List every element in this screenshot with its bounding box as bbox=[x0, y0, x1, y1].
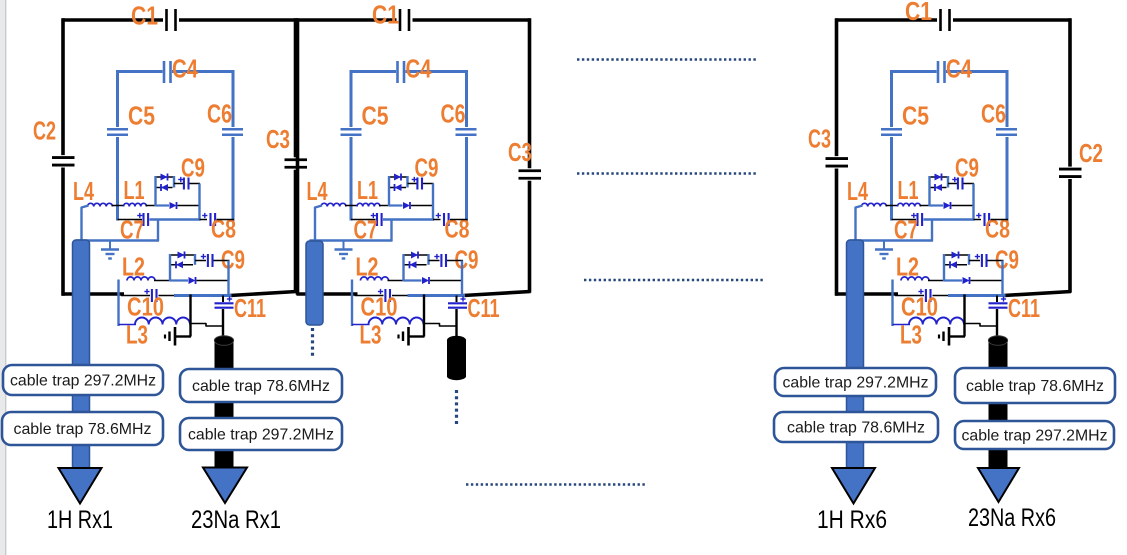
1H coax cable (loop 6) bbox=[847, 240, 864, 470]
wire: loop2 bottom edge (left part) bbox=[297, 292, 358, 296]
capacitor C5 (loop 1) bbox=[107, 128, 128, 131]
plus mark C7 (loop 6) bbox=[911, 215, 916, 217]
diode pair top wire (1H trap, loop 1) bbox=[156, 176, 175, 178]
wire: C8 left lead (loop 2) bbox=[433, 219, 441, 221]
svg-text:cable trap 297.2MHz: cable trap 297.2MHz bbox=[962, 428, 1108, 445]
wire: C7 line left part (loop 6) bbox=[892, 219, 917, 221]
capacitor C5 (loop 6) bbox=[881, 128, 902, 131]
wire: C9 to right vertical (23Na trap, loop 6) bbox=[988, 260, 1004, 262]
wire: 1H trap right end vertical (loop 1) bbox=[173, 176, 175, 188]
wire: 1H trap mid line blue part (loop 6) bbox=[930, 204, 944, 206]
svg-text:C6: C6 bbox=[207, 99, 232, 129]
wire: 1H trap right vertical (loop 2) bbox=[432, 184, 434, 221]
wire: 23Na trap output blue line on loop bottom (loop 6) bbox=[948, 294, 1006, 297]
wire: L4 to L1 segment (loop 2) bbox=[345, 205, 358, 207]
wire: inner loop6 top edge (left part) bbox=[892, 70, 937, 73]
cable trap 78.6MHz box (1H, loop 1) bbox=[2, 412, 163, 445]
wire: to C9 (1H trap, loop 2) bbox=[408, 183, 417, 185]
wire: inner loop2 right branch (lower, down to C8) bbox=[465, 137, 468, 221]
capacitor C8 (loop 2) bbox=[443, 213, 445, 226]
svg-text:L4: L4 bbox=[307, 176, 328, 206]
capacitor C10 (loop 2) bbox=[384, 289, 386, 302]
svg-text:C1: C1 bbox=[905, 0, 932, 26]
wire: 23Na trap mid line black part (loop 6) bbox=[971, 280, 1004, 282]
wire: inner loop6 top edge (right part) bbox=[946, 70, 1007, 73]
wire: to C9 (23Na trap, loop 2) bbox=[429, 260, 440, 262]
wire: C8 left lead (loop 1) bbox=[200, 219, 208, 221]
wire: C7 to C8 blue segment (loop 2) bbox=[383, 218, 434, 220]
diode pair top wire (1H trap, loop 6) bbox=[930, 176, 949, 178]
inductor L2 (loop 6) bbox=[901, 277, 929, 281]
wire: 23Na trap mid line black part (loop 2) bbox=[430, 280, 463, 282]
wire: 1H trap right end vertical (loop 6) bbox=[947, 176, 949, 188]
diode pair bottom wire (23Na trap, loop 6) bbox=[944, 264, 967, 266]
dotted ellipsis line (middle, loops 3-5) bbox=[577, 172, 758, 174]
svg-text:23Na Rx6: 23Na Rx6 bbox=[968, 504, 1056, 532]
dotted ellipsis line (bottom, cables 2-5) bbox=[466, 483, 646, 485]
wire: C10 line right part (loop 1) bbox=[159, 295, 176, 297]
capacitor C4 (loop 6) bbox=[937, 61, 940, 83]
wire: 23Na trap output blue line on loop bottom (loop 2) bbox=[408, 294, 466, 297]
capacitor C3 (loop 6) bbox=[826, 157, 849, 160]
arrow 1H Rx6 bbox=[832, 468, 875, 504]
svg-text:C9: C9 bbox=[415, 153, 439, 183]
arrow 1H Rx1 bbox=[59, 468, 102, 504]
capacitor C1 (loop 1) bbox=[165, 9, 168, 31]
svg-text:C8: C8 bbox=[985, 214, 1010, 244]
capacitor C10 (loop 6) bbox=[925, 289, 927, 302]
wire: loop6 left edge (lower) bbox=[835, 169, 839, 296]
wire: loop1 left edge (lower) bbox=[61, 168, 65, 296]
capacitor C4 (loop 2) bbox=[396, 61, 399, 83]
capacitor C2 (loop 6) bbox=[1059, 168, 1082, 171]
wire: C10 line right part (loop 2) bbox=[392, 295, 409, 297]
wire: 23Na trap right vertical (loop 2) bbox=[461, 261, 463, 297]
wire: loop1 bottom edge (left part) bbox=[62, 292, 124, 296]
svg-text:1H Rx6: 1H Rx6 bbox=[817, 506, 887, 534]
capacitor C6 (loop 6) bbox=[996, 128, 1017, 131]
plus mark C11 (loop 2) bbox=[460, 298, 465, 300]
wire: 1H trap mid line black part (loop 6) bbox=[952, 205, 975, 207]
svg-text:C10: C10 bbox=[901, 292, 938, 322]
diode pair top wire (23Na trap, loop 6) bbox=[944, 254, 969, 256]
dotted continuation of 23Na cable (loop 2) bbox=[455, 390, 458, 426]
svg-text:C1: C1 bbox=[131, 1, 158, 31]
wire: 23Na trap mid line blue part (loop 2) bbox=[404, 279, 422, 281]
capacitor C2 (loop 1) bbox=[52, 156, 75, 159]
wire: 1H trap left vertical (loop 2) bbox=[388, 176, 390, 206]
svg-text:cable trap 78.6MHz: cable trap 78.6MHz bbox=[192, 378, 330, 395]
wire: C11 top lead (loop 6) bbox=[996, 296, 998, 303]
dotted ellipsis line (top, loops 3-5) bbox=[577, 58, 757, 60]
wire: loop6 top edge (right part) bbox=[953, 18, 1071, 22]
wire: C10 line right part (loop 6) bbox=[933, 295, 950, 297]
1H coax cable (loop 1) bbox=[73, 240, 90, 470]
wire: 1H ground rail (loop 6) bbox=[850, 239, 933, 241]
wire: loop1 right edge (upper) bbox=[294, 18, 298, 157]
wire: C7 to C8 blue segment (loop 1) bbox=[150, 218, 201, 220]
svg-text:L1: L1 bbox=[898, 175, 919, 205]
wire: L3 to C11 bottom step line (loop 6) bbox=[965, 324, 998, 327]
wire: inner loop1 right branch (upper) bbox=[232, 70, 235, 127]
wire: inner loop1 left branch (upper) bbox=[116, 70, 119, 127]
svg-text:C11: C11 bbox=[468, 293, 500, 323]
svg-text:cable trap 297.2MHz: cable trap 297.2MHz bbox=[188, 427, 334, 444]
wire: to C9 (23Na trap, loop 1) bbox=[195, 260, 206, 262]
wire: C11 top lead (loop 2) bbox=[456, 296, 458, 303]
diode pair top wire (1H trap, loop 2) bbox=[389, 176, 408, 178]
ground (23Na trap, sideways, loop 1) bbox=[176, 335, 191, 337]
wire: loop1 bottom edge (right part) bbox=[230, 292, 297, 296]
plus mark C10 (loop 6) bbox=[918, 291, 923, 293]
wire: loop1 top edge (left part) bbox=[62, 18, 163, 22]
diode D1 right-pointing (1H trap, loop 6) bbox=[935, 174, 942, 181]
plus mark C9 (23Na trap, loop 6) bbox=[975, 256, 980, 258]
wire: C9 to right vertical (1H trap, loop 6) bbox=[964, 183, 975, 185]
wire: inner loop2 top edge (left part) bbox=[351, 70, 396, 73]
capacitor C11 (loop 2) bbox=[448, 302, 467, 304]
svg-text:C6: C6 bbox=[441, 99, 466, 129]
ground (1H trap, loop 1) bbox=[109, 241, 111, 250]
capacitor C7 (loop 1) bbox=[142, 213, 144, 226]
diode D6 series (23Na trap mid line, loop 6) bbox=[963, 277, 970, 284]
wire: L1 to trap segment (loop 1) bbox=[146, 205, 157, 207]
ground (23Na trap, sideways, loop 6) bbox=[950, 335, 965, 337]
wire: inner loop6 left branch (upper) bbox=[890, 70, 893, 127]
wire: L1 to trap segment (loop 2) bbox=[379, 205, 390, 207]
wire: C7 line left part (loop 1) bbox=[118, 219, 143, 221]
wire: L3 left lead (loop 6) bbox=[893, 324, 911, 326]
diode D4 right-pointing (23Na trap, loop 1) bbox=[178, 252, 185, 259]
diode pair bottom wire (23Na trap, loop 2) bbox=[404, 264, 427, 266]
wire: loop1 left edge (upper) bbox=[61, 18, 65, 155]
wire: C9 to right vertical (23Na trap, loop 2) bbox=[447, 260, 463, 262]
diode D2 left-pointing (1H trap, loop 2) bbox=[395, 184, 402, 191]
svg-text:C2: C2 bbox=[1079, 138, 1103, 168]
wire: C9 to right vertical (23Na trap, loop 1) bbox=[214, 260, 230, 262]
svg-text:C8: C8 bbox=[445, 214, 470, 244]
cable trap 78.6MHz box (23Na, loop 1) bbox=[180, 369, 342, 402]
inductor L4 (loop 1) bbox=[88, 203, 113, 206]
plus mark C7 (loop 2) bbox=[371, 215, 376, 217]
plus mark C8 (loop 2) bbox=[436, 215, 441, 217]
wire: 23Na trap diode pair right vertical (loop 2) bbox=[427, 254, 429, 265]
svg-text:C3: C3 bbox=[808, 124, 831, 154]
capacitor C9 (23Na trap, loop 6) bbox=[981, 254, 983, 267]
wire: 23Na trap left vertical from L2 down to L3 (loop 6) bbox=[891, 280, 893, 327]
wire: C10 line left part (loop 1) bbox=[121, 295, 150, 297]
wire: 23Na trap mid line blue part (loop 6) bbox=[944, 279, 962, 281]
capacitor C8 (loop 1) bbox=[209, 213, 211, 226]
diode D6 series (23Na trap mid line, loop 2) bbox=[422, 277, 429, 284]
diode D4 right-pointing (23Na trap, loop 2) bbox=[411, 252, 418, 259]
wire: C11 top lead (loop 1) bbox=[222, 296, 224, 303]
wire: vertical from blue line to ground rail (loop 1) bbox=[189, 295, 191, 337]
capacitor C9 (23Na trap, loop 1) bbox=[207, 254, 209, 267]
23Na coax cable (loop 2) bbox=[447, 340, 466, 376]
wire: C7 line left part (loop 2) bbox=[351, 219, 376, 221]
svg-text:L2: L2 bbox=[896, 252, 919, 282]
svg-text:L3: L3 bbox=[360, 320, 382, 350]
svg-text:L2: L2 bbox=[122, 252, 145, 282]
wire: 23Na trap right vertical (loop 6) bbox=[1001, 261, 1003, 297]
wire: to C9 (1H trap, loop 1) bbox=[174, 183, 183, 185]
inductor L3 (loop 6) bbox=[909, 318, 964, 325]
capacitor C11 (loop 1) bbox=[215, 302, 234, 304]
23Na coax cable (loop 6) bbox=[989, 340, 1008, 468]
svg-text:C2: C2 bbox=[33, 116, 56, 146]
wire: loop2 right edge (upper) bbox=[528, 18, 532, 168]
cable trap 78.6MHz box (23Na, loop 6) bbox=[955, 368, 1115, 403]
capacitor C6 (loop 1) bbox=[222, 128, 243, 131]
arrow 23Na Rx6 bbox=[978, 468, 1019, 502]
plus mark C11 (loop 6) bbox=[1001, 298, 1006, 300]
svg-text:C3: C3 bbox=[266, 124, 290, 154]
capacitor C7 (loop 6) bbox=[916, 213, 918, 226]
wire: L4 left bend down to 1H cable (loop 2) bbox=[315, 206, 322, 241]
wire: L2 right lead (loop 2) bbox=[388, 280, 405, 282]
svg-text:L4: L4 bbox=[847, 176, 868, 206]
wire: inner loop6 right branch (lower, down to C8) bbox=[1006, 137, 1009, 221]
wire: 1H trap right end vertical (loop 2) bbox=[406, 176, 408, 188]
capacitor C8 (loop 6) bbox=[983, 213, 985, 226]
inductor L1 (loop 1) bbox=[124, 203, 147, 206]
23Na coax cable (loop 1) bbox=[215, 340, 234, 468]
inductor L2 (loop 2) bbox=[361, 277, 389, 281]
wire: inner loop2 left branch (upper) bbox=[350, 70, 353, 127]
diode pair bottom wire (1H trap, loop 6) bbox=[930, 187, 947, 189]
diode D1 right-pointing (1H trap, loop 1) bbox=[161, 174, 168, 181]
wire: 1H trap left vertical (loop 1) bbox=[154, 176, 156, 206]
plus mark C11 (loop 1) bbox=[227, 298, 232, 300]
svg-text:C9: C9 bbox=[455, 245, 479, 275]
wire: L3 to C11 bottom step line (loop 2) bbox=[424, 324, 457, 327]
plus mark C9 (23Na trap, loop 2) bbox=[434, 256, 439, 258]
capacitor C11 (loop 6) bbox=[989, 302, 1008, 304]
inductor L1 (loop 6) bbox=[898, 203, 921, 206]
svg-text:cable trap 297.2MHz: cable trap 297.2MHz bbox=[10, 373, 156, 390]
wire: loop6 top edge (left part) bbox=[836, 18, 938, 22]
cable trap 297.2MHz box (1H, loop 6) bbox=[775, 368, 936, 396]
svg-text:C4: C4 bbox=[946, 54, 972, 84]
wire: L3 left lead (loop 1) bbox=[119, 324, 137, 326]
wire: inner loop1 left branch (lower, down to C7 line) bbox=[116, 137, 119, 221]
diode D3 series (1H trap mid line, loop 6) bbox=[944, 202, 951, 209]
wire: inner loop1 top edge (right part) bbox=[172, 70, 233, 73]
wire: loop6 left edge (upper) bbox=[835, 18, 839, 156]
capacitor C4 (loop 1) bbox=[163, 61, 166, 83]
capacitor C9 (1H trap, loop 2) bbox=[416, 178, 418, 190]
wire: 1H trap right vertical (loop 1) bbox=[198, 184, 200, 221]
svg-text:L2: L2 bbox=[356, 252, 379, 282]
wire: C7 to C8 blue segment (loop 6) bbox=[924, 218, 975, 220]
cable trap 297.2MHz box (1H, loop 1) bbox=[3, 365, 163, 395]
svg-text:L4: L4 bbox=[73, 176, 94, 206]
1H coax cable (loop 2) bbox=[306, 241, 323, 325]
wire: C11 bottom lead (loop 2) bbox=[455, 309, 457, 338]
wire: loop1 right edge (lower) bbox=[294, 170, 298, 293]
wire: inner loop6 right branch (upper) bbox=[1006, 70, 1009, 127]
diode D1 right-pointing (1H trap, loop 2) bbox=[394, 174, 401, 181]
svg-text:L1: L1 bbox=[124, 175, 145, 205]
wire: 23Na trap diode pair right vertical (loop 1) bbox=[194, 254, 196, 265]
plus mark C9 (1H trap, loop 2) bbox=[412, 179, 417, 181]
plus mark C8 (loop 1) bbox=[202, 215, 207, 217]
wire: 23Na trap mid line blue part (loop 1) bbox=[170, 279, 188, 281]
svg-text:1H Rx1: 1H Rx1 bbox=[47, 506, 113, 534]
capacitor C10 (loop 1) bbox=[151, 289, 153, 302]
svg-text:C10: C10 bbox=[361, 292, 398, 322]
wire: 23Na trap left vertical of diode pair (loop 6) bbox=[943, 254, 945, 282]
svg-text:C11: C11 bbox=[1008, 293, 1040, 323]
svg-text:C8: C8 bbox=[211, 214, 236, 244]
wire: L4 to L1 segment (loop 1) bbox=[112, 205, 125, 207]
wire: C11 bottom lead (loop 1) bbox=[222, 309, 224, 338]
diode D5 left-pointing (23Na trap, loop 1) bbox=[176, 261, 183, 268]
plus mark C10 (loop 2) bbox=[378, 291, 383, 293]
diode pair bottom wire (1H trap, loop 2) bbox=[389, 187, 406, 189]
wire: C9 to right vertical (1H trap, loop 1) bbox=[190, 183, 201, 185]
wire: C10 line left part (loop 2) bbox=[355, 295, 384, 297]
capacitor C7 (loop 2) bbox=[376, 213, 378, 226]
inductor L4 (loop 6) bbox=[862, 203, 887, 206]
wire: 1H trap mid line blue part (loop 2) bbox=[389, 204, 403, 206]
wire: L3 left lead (loop 2) bbox=[352, 324, 370, 326]
inductor L1 (loop 2) bbox=[357, 203, 380, 206]
inductor L3 (loop 1) bbox=[135, 318, 190, 325]
wire: C8 right lead to inner loop (loop 6) bbox=[991, 219, 1009, 221]
svg-text:C5: C5 bbox=[362, 101, 389, 131]
svg-text:C9: C9 bbox=[181, 153, 205, 183]
plus mark C9 (1H trap, loop 6) bbox=[952, 179, 957, 181]
ground (1H trap, loop 2) bbox=[343, 241, 345, 250]
wire: 1H ground rail (loop 2) bbox=[310, 239, 393, 241]
svg-text:C9: C9 bbox=[995, 245, 1019, 275]
wire: 23Na trap right vertical (loop 1) bbox=[227, 261, 229, 297]
wire: inner loop2 right branch (upper) bbox=[465, 70, 468, 127]
diode D4 right-pointing (23Na trap, loop 6) bbox=[952, 252, 959, 259]
svg-text:C3: C3 bbox=[508, 137, 532, 167]
wire: 1H ground rail (loop 1) bbox=[76, 239, 159, 241]
plus mark C9 (23Na trap, loop 1) bbox=[201, 256, 206, 258]
svg-text:C1: C1 bbox=[372, 0, 399, 30]
wire: junction drop from C7 line (loop 2) bbox=[390, 220, 392, 242]
capacitor C1 (loop 2) bbox=[399, 9, 402, 31]
wire: 23Na trap mid line black part (loop 1) bbox=[197, 280, 230, 282]
wire: L2 right lead (loop 1) bbox=[154, 280, 171, 282]
wire: loop6 right edge (lower) bbox=[1068, 179, 1072, 293]
svg-text:C6: C6 bbox=[981, 99, 1006, 129]
wire: 23Na trap diode pair right vertical (loop 6) bbox=[968, 254, 970, 265]
svg-text:C11: C11 bbox=[234, 293, 266, 323]
svg-text:cable trap 78.6MHz: cable trap 78.6MHz bbox=[966, 378, 1104, 395]
wire: junction drop from C7 line (loop 6) bbox=[931, 220, 933, 242]
capacitor C6 (loop 2) bbox=[456, 128, 477, 131]
wire: inner loop1 top edge (left part) bbox=[118, 70, 163, 73]
wire: to C9 (23Na trap, loop 6) bbox=[969, 260, 980, 262]
wire: 23Na trap output blue line on loop bottom (loop 1) bbox=[174, 294, 232, 297]
wire: 23Na trap left vertical of diode pair (loop 1) bbox=[169, 254, 171, 282]
wire: L1 to trap segment (loop 6) bbox=[920, 205, 931, 207]
diode D3 series (1H trap mid line, loop 2) bbox=[403, 202, 410, 209]
plus mark C7 (loop 1) bbox=[137, 215, 142, 217]
capacitor C9 (1H trap, loop 6) bbox=[957, 178, 959, 190]
slide edge strip (left) bbox=[0, 0, 5, 555]
svg-text:C10: C10 bbox=[127, 292, 164, 322]
diode D5 left-pointing (23Na trap, loop 6) bbox=[950, 261, 957, 268]
wire: 23Na trap left vertical from L2 down to L3 (loop 1) bbox=[117, 280, 119, 327]
inductor L2 (loop 1) bbox=[127, 277, 155, 281]
wire: loop2 left edge bbox=[296, 18, 300, 295]
wire: C10 line left part (loop 6) bbox=[895, 295, 924, 297]
capacitor C3 (loop 2) bbox=[519, 169, 542, 172]
wire: C8 right lead to inner loop (loop 1) bbox=[217, 219, 235, 221]
diode D5 left-pointing (23Na trap, loop 2) bbox=[410, 261, 417, 268]
wire: C8 right lead to inner loop (loop 2) bbox=[450, 219, 468, 221]
svg-text:cable trap 78.6MHz: cable trap 78.6MHz bbox=[14, 421, 152, 438]
wire: 1H trap mid line black part (loop 1) bbox=[178, 205, 201, 207]
svg-text:23Na Rx1: 23Na Rx1 bbox=[191, 506, 281, 534]
diode pair top wire (23Na trap, loop 1) bbox=[170, 254, 195, 256]
dotted continuation of 1H cable (loop 2) bbox=[311, 328, 314, 356]
wire: C11 bottom lead (loop 6) bbox=[996, 309, 998, 338]
svg-text:cable trap 297.2MHz: cable trap 297.2MHz bbox=[783, 375, 929, 392]
svg-text:cable trap 78.6MHz: cable trap 78.6MHz bbox=[787, 420, 925, 437]
svg-text:C5: C5 bbox=[128, 101, 155, 131]
wire: vertical from blue line to ground rail (loop 6) bbox=[963, 295, 965, 337]
svg-text:C9: C9 bbox=[221, 245, 245, 275]
wire: C9 to right vertical (1H trap, loop 2) bbox=[423, 183, 434, 185]
cable trap 297.2MHz box (23Na, loop 6) bbox=[955, 421, 1114, 449]
wire: loop6 bottom edge (left part) bbox=[836, 292, 899, 296]
wire: vertical from blue line to ground rail (loop 2) bbox=[423, 295, 425, 337]
wire: inner loop2 left branch (lower, down to C7 line) bbox=[350, 137, 353, 221]
capacitor C1 (loop 6) bbox=[939, 9, 942, 31]
wire: junction drop from C7 line (loop 1) bbox=[157, 220, 159, 242]
wire: inner loop2 top edge (right part) bbox=[406, 70, 467, 73]
diode D2 left-pointing (1H trap, loop 6) bbox=[935, 184, 942, 191]
diode D6 series (23Na trap mid line, loop 1) bbox=[189, 277, 196, 284]
ground (23Na trap, sideways, loop 2) bbox=[410, 335, 425, 337]
svg-text:C9: C9 bbox=[955, 153, 979, 183]
wire: loop1 top edge (right part) bbox=[179, 18, 297, 22]
wire: 23Na trap left vertical of diode pair (loop 2) bbox=[402, 254, 404, 282]
capacitor C3 (loop 1) bbox=[285, 158, 308, 161]
diode D3 series (1H trap mid line, loop 1) bbox=[170, 202, 177, 209]
diode pair top wire (23Na trap, loop 2) bbox=[404, 254, 429, 256]
plus mark C10 (loop 1) bbox=[144, 291, 149, 293]
wire: 1H trap right vertical (loop 6) bbox=[972, 184, 974, 221]
wire: to C9 (1H trap, loop 6) bbox=[948, 183, 957, 185]
diode pair bottom wire (1H trap, loop 1) bbox=[156, 187, 173, 189]
wire: C8 left lead (loop 6) bbox=[974, 219, 982, 221]
capacitor C9 (1H trap, loop 1) bbox=[183, 178, 185, 190]
wire: loop2 top edge (right part) bbox=[413, 18, 531, 22]
plus mark C8 (loop 6) bbox=[976, 215, 981, 217]
inductor L3 (loop 2) bbox=[369, 318, 424, 325]
svg-text:C4: C4 bbox=[172, 54, 198, 84]
svg-text:C4: C4 bbox=[406, 54, 432, 84]
svg-text:L3: L3 bbox=[126, 320, 148, 350]
wire: L2 right lead (loop 6) bbox=[928, 280, 945, 282]
wire: inner loop1 right branch (lower, down to C8) bbox=[232, 137, 235, 221]
wire: loop6 right edge (upper) bbox=[1068, 18, 1072, 166]
inductor L4 (loop 2) bbox=[321, 203, 346, 206]
wire: loop2 right edge (lower) bbox=[528, 181, 532, 293]
ground (1H trap, loop 6) bbox=[883, 241, 885, 250]
arrow 23Na Rx1 bbox=[203, 468, 247, 504]
capacitor C5 (loop 2) bbox=[341, 128, 362, 131]
